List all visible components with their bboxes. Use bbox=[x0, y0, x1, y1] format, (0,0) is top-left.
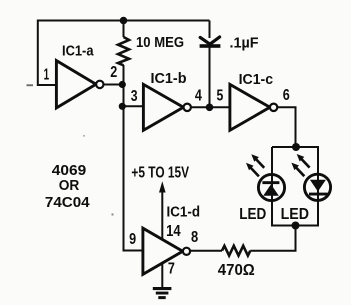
svg-text:IC1-c: IC1-c bbox=[239, 72, 274, 88]
svg-text:.1µF: .1µF bbox=[230, 35, 259, 51]
svg-text:14: 14 bbox=[166, 223, 181, 240]
svg-text:8: 8 bbox=[191, 229, 198, 246]
svg-text:1: 1 bbox=[44, 67, 50, 84]
svg-text:9: 9 bbox=[129, 231, 136, 248]
svg-text:+5 TO 15V: +5 TO 15V bbox=[131, 165, 189, 182]
svg-text:470Ω: 470Ω bbox=[218, 262, 255, 279]
svg-text:4069: 4069 bbox=[52, 163, 86, 179]
svg-text:IC1-b: IC1-b bbox=[151, 71, 187, 87]
svg-text:74C04: 74C04 bbox=[45, 195, 90, 211]
svg-text:IC1-d: IC1-d bbox=[167, 204, 201, 220]
svg-text:7: 7 bbox=[168, 261, 175, 278]
svg-text:IC1-a: IC1-a bbox=[62, 44, 94, 60]
svg-text:6: 6 bbox=[283, 87, 290, 104]
svg-text:10 MEG: 10 MEG bbox=[136, 35, 184, 51]
svg-text:LED: LED bbox=[281, 206, 309, 223]
svg-text:2: 2 bbox=[110, 64, 117, 81]
svg-text:3: 3 bbox=[131, 88, 138, 105]
svg-text:OR: OR bbox=[59, 178, 80, 194]
svg-text:LED: LED bbox=[239, 206, 266, 223]
svg-text:5: 5 bbox=[217, 88, 224, 105]
svg-text:4: 4 bbox=[195, 88, 202, 105]
